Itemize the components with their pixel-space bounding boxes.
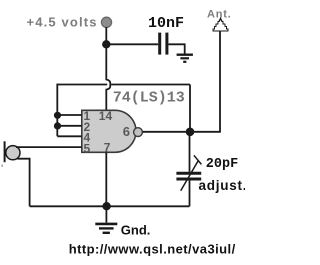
wire bus to pin 2 xyxy=(57,125,82,127)
junction dot pin1 bus xyxy=(54,112,61,119)
wire junction down to variable capacitor xyxy=(189,132,191,172)
wire microphone to pin 5 xyxy=(16,146,82,148)
input bus vertical wire xyxy=(56,84,58,137)
svg-text:Ant.: Ant. xyxy=(207,8,232,20)
power node +4.5V dot xyxy=(101,17,111,27)
variable capacitor C2 arrow shaft xyxy=(181,160,199,190)
capacitor C1 10nF xyxy=(160,33,167,55)
svg-text:20pF: 20pF xyxy=(206,157,238,172)
op-amp U1 74(LS)13 gate body xyxy=(82,110,136,152)
junction dot pin2 bus xyxy=(54,122,61,129)
wire bus to pin 4 xyxy=(57,135,82,137)
microphone label marks xyxy=(1,165,3,167)
wire VCC vertical (with jog over feedback wire) to pin 14 xyxy=(106,27,110,111)
wire pin 7 down to ground rail xyxy=(105,152,107,206)
wire bus to pin 1 xyxy=(57,114,82,116)
wire variable capacitor to ground rail xyxy=(189,180,191,206)
wire node A to C1 xyxy=(106,43,158,45)
wire junction to antenna line xyxy=(190,131,221,133)
wire antenna drop xyxy=(219,32,221,132)
junction node ground xyxy=(102,202,110,210)
wire C1 to top ground xyxy=(168,44,184,53)
ground (bottom) bars xyxy=(95,224,117,233)
ground (bottom) stem xyxy=(105,206,107,222)
svg-text:Gnd.: Gnd. xyxy=(121,223,151,238)
wire xyxy=(111,84,190,86)
microphone X1 body xyxy=(6,146,20,160)
wire output pin 6 to junction xyxy=(143,131,190,133)
svg-text:adjust.: adjust. xyxy=(199,178,246,193)
svg-text:10nF: 10nF xyxy=(148,15,184,32)
svg-text:+4.5 volts: +4.5 volts xyxy=(27,15,98,30)
svg-text:http://www.qsl.net/va3iul/: http://www.qsl.net/va3iul/ xyxy=(69,242,236,257)
feedback wire top horizontal (two segments around jog) xyxy=(57,84,107,86)
feedback wire right vertical xyxy=(189,85,191,132)
ground rail bottom wire xyxy=(30,205,190,207)
variable capacitor C2 arrow T-bar xyxy=(194,155,202,164)
junction node output xyxy=(186,128,195,137)
inverting bubble at gate output xyxy=(134,128,143,137)
junction node A (VCC / 10nF) xyxy=(102,40,110,48)
svg-text:14: 14 xyxy=(99,109,113,123)
svg-text:74(LS)13: 74(LS)13 xyxy=(113,89,185,106)
antenna symbol xyxy=(213,19,228,32)
wire microphone bottom terminal to ground rail xyxy=(18,159,30,207)
svg-text:5: 5 xyxy=(84,142,91,156)
variable capacitor C2 plates xyxy=(176,173,201,179)
ground (top, after C1) xyxy=(177,55,193,62)
microphone X1 plate xyxy=(4,141,6,162)
svg-text:6: 6 xyxy=(123,124,130,139)
